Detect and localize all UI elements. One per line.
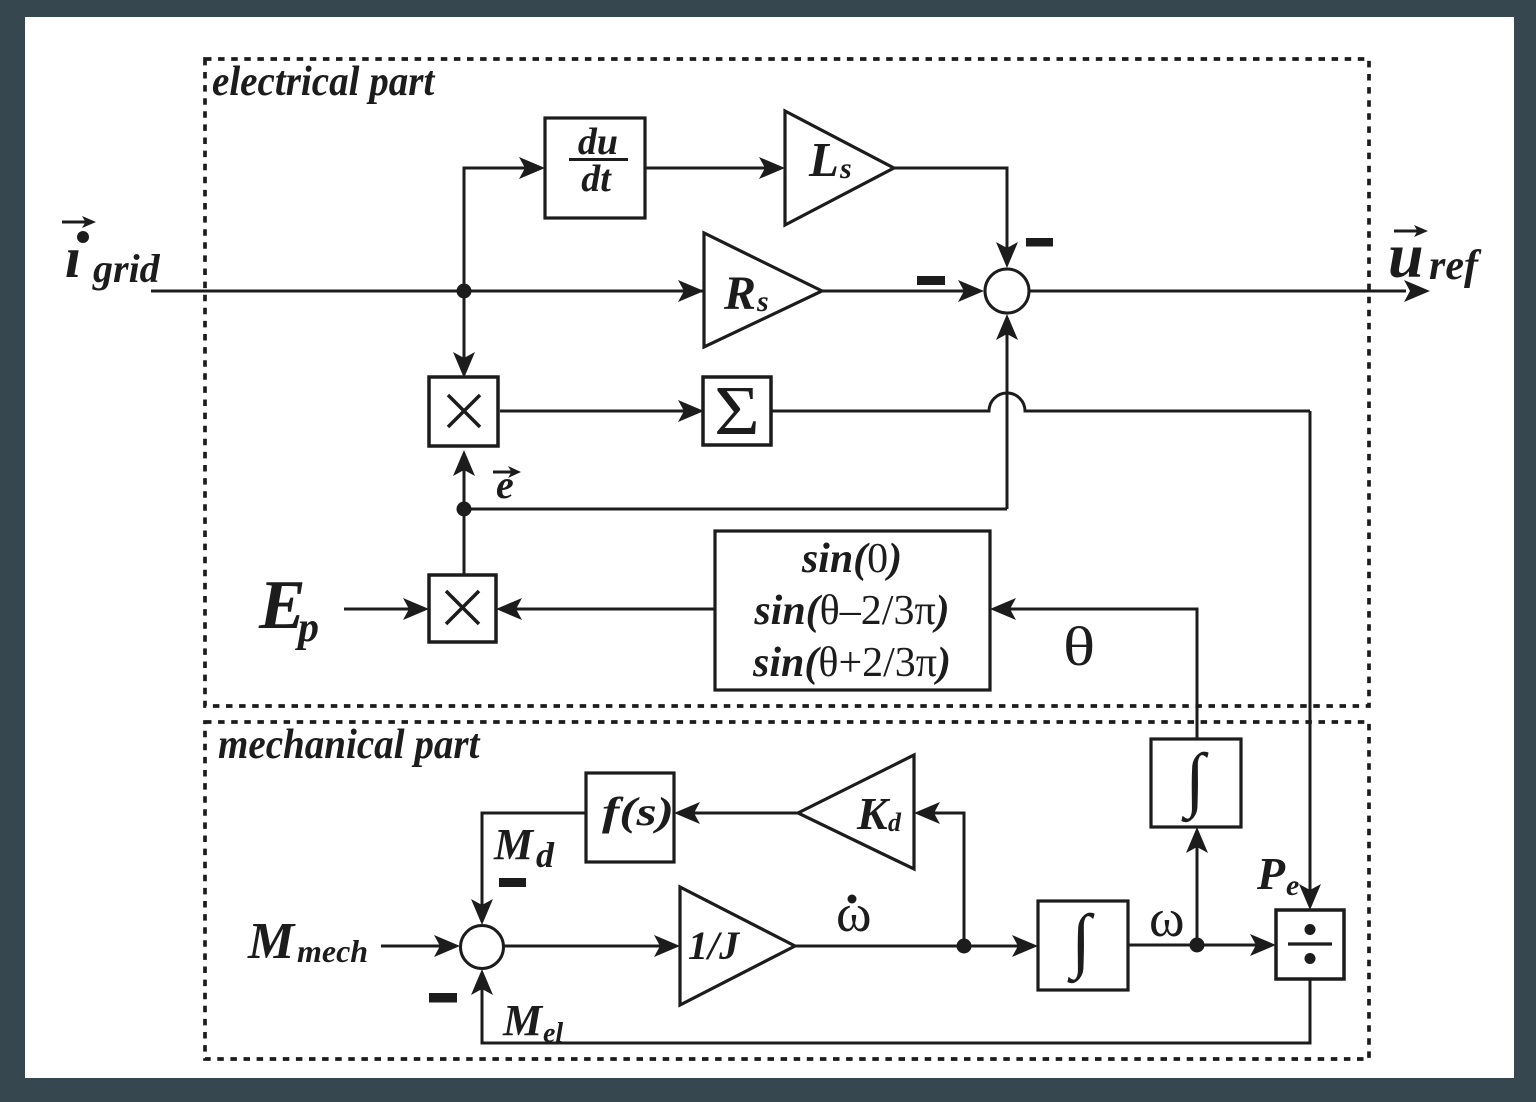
svg-text:Σ: Σ (714, 373, 760, 450)
wire sin block output to M2 right (510, 608, 715, 611)
integrator omega (1038, 900, 1128, 990)
wire Ep input to M2 (344, 608, 415, 611)
block f(s) (586, 773, 674, 862)
wire omega node up into theta integrator (1196, 841, 1199, 945)
svg-text:p: p (295, 605, 319, 651)
label theta (1063, 617, 1095, 678)
svg-text:dt: dt (581, 158, 612, 200)
arrowhead into sigma block (678, 400, 704, 422)
wire node B up into M1 bottom (463, 464, 466, 509)
svg-text:ref: ref (1429, 243, 1482, 289)
gain Rs (704, 233, 822, 347)
wire summer output to u_ref (1030, 290, 1406, 293)
arrowhead down into M1 top (453, 352, 475, 378)
wire M1 output to sigma block (500, 410, 690, 413)
svg-text:e: e (1286, 869, 1299, 902)
wire M2 output up to node B (463, 509, 466, 575)
minus sign above summer S1 (1026, 238, 1053, 247)
label Ep (258, 567, 319, 651)
arrowhead u_ref output (1404, 280, 1430, 302)
label electrical part (212, 58, 436, 105)
wire f(s) output to mech summer top (482, 813, 586, 911)
arrowhead into Rs (678, 280, 704, 302)
svg-text:ω: ω (836, 883, 872, 943)
gain 1/J (680, 887, 795, 1005)
label Md (493, 820, 555, 875)
arrowhead into divider left (1250, 934, 1276, 956)
svg-text:el: el (543, 1018, 563, 1049)
wire theta line from integrator to sin block (1004, 609, 1197, 739)
svg-text:d: d (536, 835, 555, 875)
arrowhead into M2 right (496, 598, 522, 620)
label Mmech (247, 913, 368, 970)
arrowhead into omega integrator (1012, 935, 1038, 957)
node B junction dot e (457, 502, 472, 517)
svg-text:P: P (1256, 848, 1286, 899)
arrowhead up into M1 bottom (453, 450, 475, 476)
dashed box mechanical part (205, 722, 1369, 1059)
arrowhead into sin block right (990, 598, 1016, 620)
svg-text:L: L (808, 132, 839, 187)
wire Kd output to f(s) (688, 812, 798, 815)
wire node C up to Kd input (928, 813, 964, 946)
svg-text:f(s): f(s) (602, 790, 674, 834)
svg-text:grid: grid (92, 246, 161, 291)
arrowhead down into mech summer top (471, 899, 493, 925)
svg-text:d: d (888, 808, 902, 837)
node D junction dot omega (1190, 938, 1205, 953)
arrowhead into f(s) right (674, 802, 700, 824)
node A junction dot (457, 284, 472, 299)
label Pe (1256, 848, 1299, 902)
svg-text:sin(θ+2/3π): sin(θ+2/3π) (752, 640, 951, 686)
divider block (1276, 910, 1344, 979)
arrowhead down into summer top (996, 242, 1018, 268)
minus sign Mel input (429, 993, 457, 1003)
wire omega integrator output to divider left (1128, 944, 1262, 947)
svg-text:ω: ω (1149, 888, 1185, 948)
arrowhead up into theta integrator (1186, 827, 1208, 853)
label i_grid input (62, 216, 161, 291)
svg-text:mechanical part: mechanical part (218, 721, 481, 768)
svg-text:sin(0): sin(0) (801, 536, 902, 582)
svg-text:K: K (856, 788, 891, 839)
svg-text:M: M (493, 820, 535, 869)
arrowhead up into mech summer bottom (471, 969, 493, 995)
svg-text:s: s (839, 152, 852, 185)
integrator theta (1151, 739, 1241, 827)
gain Ls (785, 111, 894, 225)
svg-text:sin(θ–2/3π): sin(θ–2/3π) (753, 588, 949, 634)
wire du/dt to Ls (645, 167, 771, 170)
label omega-dot (836, 883, 872, 943)
wire e node up into summer bottom (1006, 328, 1009, 509)
svg-text:electrical part: electrical part (212, 58, 436, 105)
svg-text:M: M (247, 913, 296, 970)
wire i_grid main input line (151, 290, 704, 293)
arrowhead into M2 left (403, 598, 429, 620)
multiplier M2 (429, 575, 496, 642)
minus sign Md input (499, 878, 526, 887)
wire 1/J output to omega integrator (795, 945, 1024, 948)
wire Ls output to summer top (894, 168, 1007, 254)
wire Rs output to summer left (822, 290, 970, 293)
arrowhead into 1/J (654, 935, 680, 957)
label Mel (502, 996, 563, 1049)
label mechanical part (218, 721, 481, 768)
gain Kd (798, 755, 914, 869)
wire e horizontal line (464, 508, 1007, 511)
arrowhead into summer left (958, 280, 984, 302)
label e vector (493, 462, 521, 507)
svg-text:θ: θ (1063, 617, 1095, 678)
multiplier M1 (429, 377, 498, 446)
summer S1 circle (985, 269, 1029, 313)
wire Pe vertical down into divider top (1309, 411, 1312, 896)
minus sign left of summer S1 (917, 276, 945, 285)
block du/dt (545, 118, 645, 218)
label u_ref output (1388, 220, 1482, 291)
svg-text:R: R (723, 267, 756, 320)
svg-text:s: s (756, 285, 769, 318)
arrowhead down into divider top (1299, 884, 1321, 910)
arrowhead into mech summer left (434, 935, 460, 957)
arrowhead into Ls (759, 157, 785, 179)
svg-text:mech: mech (297, 933, 368, 969)
dashed box electrical part (205, 59, 1369, 706)
svg-text:1/J: 1/J (688, 923, 741, 968)
arrowhead into du/dt (519, 157, 545, 179)
node C junction dot omega-dot (957, 939, 972, 954)
block sin functions (715, 531, 990, 690)
summer S2 circle mechanical (461, 926, 504, 969)
svg-text:du: du (578, 121, 618, 163)
wire sigma output with hop to Pe corner (771, 393, 1310, 411)
arrowhead into Kd right (914, 802, 940, 824)
wire mech summer output to 1/J (504, 945, 666, 948)
wire branch up from node A to du/dt (464, 168, 531, 291)
svg-text:M: M (502, 996, 544, 1045)
arrowhead up into summer bottom (996, 314, 1018, 340)
wire node A down into multiplier M1 (463, 291, 466, 364)
block Sigma (703, 373, 771, 450)
wire Mmech input to mech summer (381, 945, 446, 948)
wire divider output to Mel feedback line (482, 979, 1310, 1043)
